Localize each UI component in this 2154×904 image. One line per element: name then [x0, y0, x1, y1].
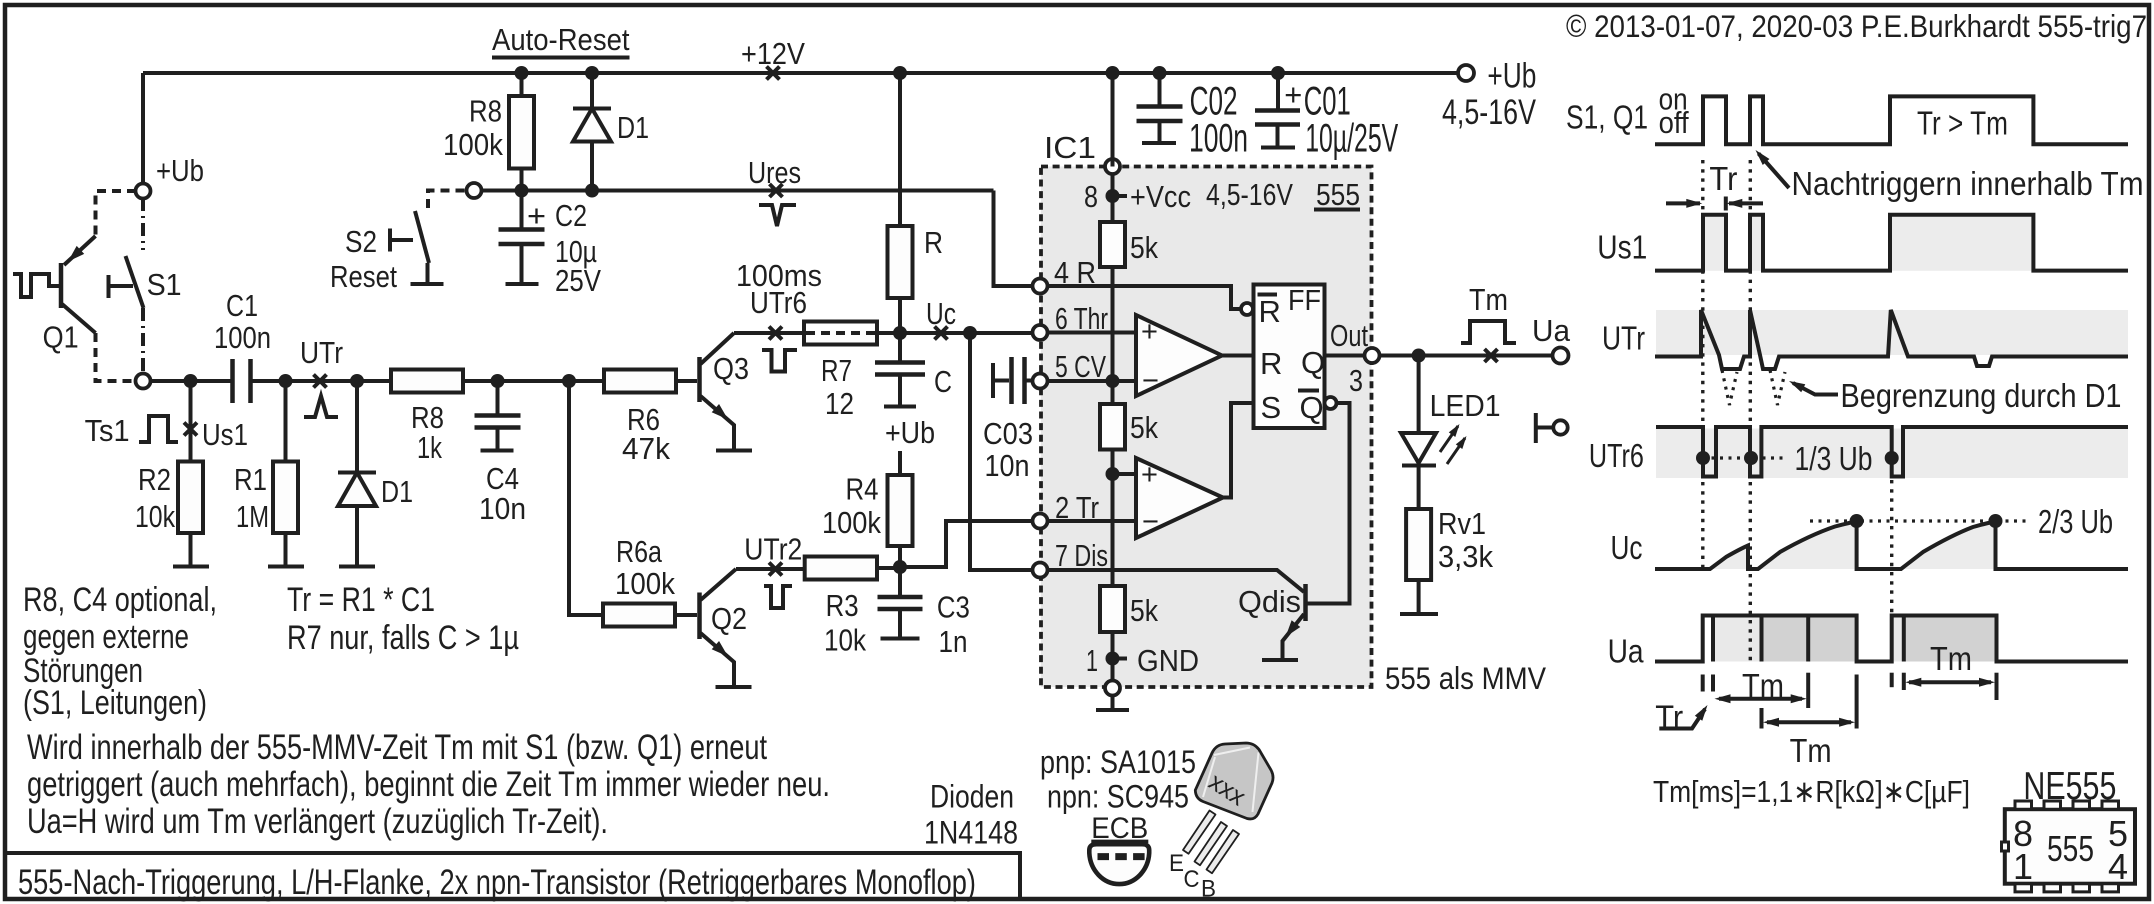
svg-text:10µ/25V: 10µ/25V: [1305, 117, 1398, 161]
svg-text:100k: 100k: [822, 505, 881, 540]
svg-text:IC1: IC1: [1044, 130, 1096, 165]
tick Tm C left b: [1902, 673, 1906, 690]
dot 2/3 level b: [1989, 514, 2003, 528]
svg-text:Tr = R1 * C1: Tr = R1 * C1: [287, 581, 435, 619]
wire pin1 to ground: [1111, 695, 1115, 709]
transistor Qdis base bar: [1303, 584, 1308, 621]
arrowhead Tm B left: [1763, 718, 1779, 727]
wire R1 to ground: [284, 533, 288, 565]
svg-text:S: S: [1261, 390, 1282, 425]
svg-text:C1: C1: [226, 288, 258, 323]
svg-text:4: 4: [2108, 846, 2128, 887]
svg-text:UTr6: UTr6: [750, 285, 807, 320]
wire C4 to bar: [496, 428, 500, 450]
svg-text:1M: 1M: [236, 499, 269, 534]
svg-text:D1: D1: [381, 474, 413, 509]
dot 1/3 level a: [1696, 451, 1710, 465]
ground bar pin1: [1096, 708, 1129, 712]
tick gnd label: [1119, 657, 1127, 661]
svg-text:Tr: Tr: [1709, 160, 1737, 197]
junction rail C02: [1153, 66, 1167, 80]
wire divider lower: [1111, 450, 1115, 587]
arrowhead Tr left: [1686, 199, 1702, 208]
ground bar Qdis: [1262, 658, 1298, 662]
wire R to node: [898, 298, 902, 333]
arrowhead Qdis emitter: [1281, 620, 1300, 640]
wire out net: [1379, 354, 1553, 358]
svg-text:100k: 100k: [615, 566, 675, 601]
svg-text:Tm[ms]=1,1∗R[kΩ]∗C[µF]: Tm[ms]=1,1∗R[kΩ]∗C[µF]: [1653, 774, 1970, 809]
svg-text:C2: C2: [555, 198, 587, 233]
pin 4 R circle: [1033, 279, 1048, 294]
wire left drop from rail to +Ub connector: [141, 73, 145, 184]
svg-text:1: 1: [2013, 846, 2033, 887]
wire Ures net: [481, 189, 994, 193]
svg-text:8: 8: [1084, 179, 1098, 214]
svg-text:Auto-Reset: Auto-Reset: [492, 22, 630, 57]
wire R4 to node: [898, 546, 902, 567]
ground bar R2: [173, 565, 209, 569]
resistor R6a 100k: [603, 604, 675, 627]
ground bar C: [884, 405, 916, 409]
NE555 bottom pins: [2015, 884, 2119, 892]
arrowhead Begrenzung: [1787, 377, 1805, 392]
waveform UTr6 gray band: [1656, 429, 2128, 479]
svg-text:Ures: Ures: [748, 155, 801, 190]
NE555 top pins: [2015, 801, 2119, 809]
wire D1 to ground: [355, 506, 359, 565]
svg-text:3: 3: [1349, 363, 1363, 398]
wire C03 to pin5: [1025, 379, 1034, 383]
dimension Tm C line: [1909, 680, 1991, 684]
svg-text:1: 1: [1086, 643, 1098, 678]
glyph UTr2 down pulse: [764, 586, 792, 608]
dotted guide line B: [1749, 160, 1752, 662]
svg-text:R8, C4 optional,: R8, C4 optional,: [23, 581, 217, 619]
svg-text:Tm: Tm: [1742, 667, 1784, 704]
waveform UTr gray band: [1656, 310, 2128, 355]
annotation Tr arrow bottom: [1659, 709, 1705, 729]
dotted level 2/3 Ub: [1810, 519, 2030, 522]
svg-text:+: +: [1141, 316, 1158, 348]
TO-92 front view flat dashes: [1098, 853, 1146, 860]
svg-text:Ua=H wird um Tm verlängert (zu: Ua=H wird um Tm verlängert (zuzüglich Tr…: [27, 802, 608, 841]
IC1 555 dashed border: [1041, 167, 1372, 688]
transistor Q2 base bar: [697, 593, 702, 640]
underline ECB: [1091, 840, 1148, 843]
ground bar Q3 emitter: [716, 449, 752, 453]
glyph Q1 input pulse: [13, 274, 59, 297]
arrowhead Tm C right: [1979, 678, 1995, 687]
svg-text:Out: Out: [1330, 318, 1368, 353]
switch S1 contact bar: [109, 275, 134, 298]
transistor Q2 collector: [701, 569, 737, 600]
wire pin4 to FF Rbar: [1047, 286, 1241, 309]
svg-text:Tr > Tm: Tr > Tm: [1917, 105, 2008, 142]
svg-text:1/3 Ub: 1/3 Ub: [1795, 440, 1873, 477]
svg-text:1N4148: 1N4148: [924, 815, 1018, 851]
tick Tm B right: [1855, 675, 1859, 729]
wire comp1 out: [1222, 354, 1254, 358]
junction R1 node: [279, 374, 293, 388]
waveform UTr6 trace: [1656, 427, 2128, 477]
svg-text:5k: 5k: [1130, 410, 1158, 445]
svg-text:2/3 Ub: 2/3 Ub: [2038, 503, 2113, 540]
capacitor C3 plates: [878, 597, 923, 609]
tick Tm B left: [1760, 708, 1764, 729]
arrowhead Tm B right: [1839, 718, 1855, 727]
svg-text:(S1, Leitungen): (S1, Leitungen): [23, 684, 207, 722]
ground bar C4: [481, 449, 514, 453]
measure point X UTr2: [769, 563, 782, 576]
svg-text:LED1: LED1: [1430, 388, 1501, 423]
junction Ures R8: [515, 184, 529, 198]
wire Ures to C2: [520, 191, 524, 230]
svg-text:555 als MMV: 555 als MMV: [1385, 660, 1546, 696]
wire node to C3: [898, 568, 902, 597]
transistor Q1 base bar: [59, 263, 64, 308]
svg-text:UTr2: UTr2: [744, 532, 802, 567]
glyph UTr6 down pulse: [762, 350, 797, 372]
svg-text:Ts1: Ts1: [85, 413, 130, 448]
svg-text:Us1: Us1: [202, 417, 248, 452]
measure point X Ua: [1485, 349, 1498, 362]
tick pin8 to Vcc label: [1119, 194, 1127, 198]
svg-text:Begrenzung durch D1: Begrenzung durch D1: [1841, 377, 2122, 414]
wire Uc net: [734, 331, 804, 335]
junction rail R timing: [893, 66, 907, 80]
svg-text:47k: 47k: [622, 431, 670, 466]
underline 555: [1314, 208, 1360, 212]
junction rail D1: [585, 66, 599, 80]
dot 1/3 level c: [1885, 451, 1899, 465]
IC1 555 block shaded area: [1041, 167, 1372, 688]
svg-text:C: C: [1184, 866, 1200, 893]
svg-text:R7: R7: [821, 353, 852, 388]
connector open stub: [1536, 413, 1553, 443]
svg-text:Us1: Us1: [1597, 229, 1647, 266]
diode D1 input clamp: [338, 471, 376, 475]
svg-text:5k: 5k: [1130, 230, 1158, 265]
junction GND node: [1106, 652, 1120, 666]
capacitor C02 plates: [1137, 107, 1183, 122]
wire R8 to C4 node: [463, 379, 604, 383]
junction R3 R4 C3 node: [893, 560, 907, 574]
svg-text:10k: 10k: [135, 499, 175, 534]
wire rail to R8: [520, 73, 524, 96]
svg-text:5 CV: 5 CV: [1055, 349, 1106, 384]
title box: [5, 853, 1020, 899]
capacitor C4 plates: [475, 416, 521, 428]
resistor R8 100k: [509, 96, 534, 169]
tick Tm C left a: [1890, 673, 1894, 688]
wire D1 to Ures node: [590, 142, 594, 191]
junction rail C01: [1271, 66, 1285, 80]
svg-text:10n: 10n: [985, 448, 1030, 483]
transistor Q1 collector: [62, 304, 96, 333]
svg-text:gegen externe: gegen externe: [23, 618, 189, 656]
capacitor C2 plates: [499, 230, 545, 245]
svg-text:Q1: Q1: [43, 320, 79, 355]
wire out to LED: [1417, 356, 1421, 434]
svg-text:R3: R3: [826, 588, 859, 623]
svg-text:Q: Q: [1301, 345, 1325, 380]
svg-text:B: B: [1201, 876, 1216, 903]
svg-text:Q: Q: [1300, 390, 1324, 425]
op-amp comparator lower: [1136, 458, 1223, 538]
svg-text:4,5-16V: 4,5-16V: [1206, 177, 1293, 212]
resistor R2 10k: [178, 462, 203, 534]
wire pin8 into chip: [1111, 174, 1115, 223]
svg-text:R6a: R6a: [616, 534, 663, 569]
dimension Tm A line: [1719, 697, 1802, 701]
dash-dot wire +Ub to S1: [141, 198, 145, 250]
svg-text:S1: S1: [147, 267, 182, 302]
wire Qbar to Qdis base: [1307, 403, 1350, 604]
wire rail to D1: [590, 73, 594, 109]
svg-text:+Vcc: +Vcc: [1130, 179, 1191, 214]
waveform Uc trace: [1655, 522, 2128, 570]
wire C01 to bar: [1276, 125, 1280, 147]
svg-text:+: +: [1141, 459, 1158, 491]
arrowhead Tr right: [1726, 199, 1742, 208]
arrowhead Q3 emitter: [712, 404, 732, 424]
dotted guide line C: [1890, 434, 1893, 662]
waveform Ua pulse2 light fill: [1892, 616, 1904, 662]
measure point X Ures: [770, 184, 783, 197]
junction D1 node: [350, 374, 364, 388]
op-amp comparator upper: [1136, 315, 1222, 396]
dashed bridge through R7: [806, 331, 875, 335]
wire R6a to Q2 base: [675, 613, 697, 617]
wire pin5 to comp1 minus: [1047, 379, 1136, 383]
junction R C node: [893, 326, 907, 340]
pin 6 Thr circle: [1033, 325, 1048, 340]
annotation Begrenzung arrow: [1793, 383, 1838, 395]
svg-text:S1, Q1: S1, Q1: [1566, 99, 1648, 136]
terminal +Ub top right: [1458, 65, 1474, 81]
resistor Rv1 3k3: [1406, 509, 1431, 580]
glyph Ts1 pulse: [139, 416, 178, 442]
connector +Ub left: [136, 184, 151, 199]
svg-text:UTr6: UTr6: [1589, 437, 1644, 474]
wire +Ub stub to R4: [898, 451, 902, 475]
svg-text:−: −: [1142, 506, 1159, 538]
svg-text:E: E: [1169, 850, 1184, 877]
wire R6a branch: [569, 381, 603, 615]
wire R6 to Q3 base: [676, 379, 697, 383]
ground bar Rv1: [1400, 612, 1438, 616]
junction divider CV: [1106, 374, 1120, 388]
resistor R timing: [888, 226, 913, 298]
wire Rv1 to ground: [1417, 580, 1421, 613]
svg-text:off: off: [1659, 105, 1689, 140]
terminal Ua circle: [1553, 348, 1569, 364]
junction pin8 inner: [1106, 189, 1120, 203]
tick Tr edge 1: [1701, 675, 1705, 692]
ground bar Q2 emitter: [716, 685, 752, 689]
svg-text:+Ub: +Ub: [1487, 57, 1536, 96]
terminal bar C01: [1261, 146, 1295, 150]
svg-text:Qdis: Qdis: [1238, 584, 1301, 619]
capacitor C03 plates: [1012, 357, 1025, 404]
pin 7 Dis circle: [1033, 563, 1048, 578]
wire input node to C1: [150, 379, 233, 383]
glyph Tm pulse: [1461, 321, 1516, 343]
resistor divider 5k mid: [1100, 404, 1125, 450]
glyph Ures negative spike: [759, 205, 796, 226]
svg-text:R: R: [924, 225, 943, 260]
wire FF Q to out pin: [1325, 354, 1366, 358]
wire C3 to bar: [898, 609, 902, 637]
waveform Us1 pulse fills: [1703, 215, 2033, 271]
switch S2 contact bar: [390, 229, 413, 252]
capacitor C03 terminal bar: [993, 363, 1009, 398]
dash-dot wire S1 to input circle: [141, 308, 145, 373]
capacitor C1 plates: [233, 359, 251, 403]
resistor R4 100k: [888, 475, 913, 546]
wire divider upper: [1111, 267, 1115, 404]
svg-text:FF: FF: [1288, 285, 1321, 317]
svg-text:555: 555: [1316, 177, 1360, 212]
glyph UTr spike: [304, 396, 338, 417]
waveform Ua pulse1 light fill: [1713, 616, 1762, 662]
svg-text:R8: R8: [469, 94, 502, 129]
junction LED branch: [1412, 349, 1426, 363]
arrowhead Q1 emitter: [64, 246, 84, 266]
underline Auto-Reset: [492, 56, 630, 60]
LED LED1 arrows: [1440, 426, 1465, 464]
FF inverting bubble Qbar: [1325, 397, 1337, 409]
svg-text:R7 nur, falls C > 1µ: R7 nur, falls C > 1µ: [287, 619, 519, 657]
svg-text:555-Nach-Triggerung, L/H-Flank: 555-Nach-Triggerung, L/H-Flanke, 2x npn-…: [18, 863, 976, 902]
pin 1 GND circle: [1105, 681, 1120, 696]
ground bar C3: [881, 637, 920, 641]
svg-text:Ua: Ua: [1608, 632, 1645, 669]
resistor R1 1M: [273, 462, 298, 534]
dashed wire Q1 collector to input node: [96, 333, 137, 381]
arrowhead LED ray 1: [1449, 422, 1463, 437]
pin 5 CV circle: [1033, 374, 1048, 389]
svg-text:Tm: Tm: [1930, 640, 1972, 677]
svg-text:C03: C03: [983, 416, 1033, 451]
flip-flop FF box: [1254, 285, 1325, 429]
svg-text:Tm: Tm: [1469, 282, 1508, 317]
waveform Ua divider 4: [1902, 616, 1906, 662]
ground bar R1: [268, 565, 304, 569]
wire R8 to Ures node: [520, 169, 524, 191]
svg-text:100n: 100n: [1189, 117, 1248, 161]
svg-text:1k: 1k: [417, 430, 442, 465]
svg-text:Tm: Tm: [1790, 732, 1832, 769]
waveform Ua pulse2 dark fill: [1904, 616, 1997, 662]
TO-92 front view outline: [1089, 844, 1149, 884]
tick Tm C right: [1995, 673, 1999, 700]
resistor divider 5k top: [1100, 222, 1125, 267]
wire D1 branch: [355, 381, 359, 473]
svg-text:+Ub: +Ub: [156, 153, 204, 188]
pin 2 Tr circle: [1033, 514, 1048, 529]
wire C4 branch: [496, 381, 500, 416]
waveform UTr dotted V2: [1770, 370, 1785, 405]
annotation Nachtriggern arrow: [1759, 154, 1790, 189]
svg-text:5k: 5k: [1130, 593, 1158, 628]
wire Uc node to pin7 Dis: [970, 333, 1033, 570]
svg-text:Ua: Ua: [1532, 313, 1571, 348]
NE555 pin1 notch: [2002, 842, 2009, 851]
dashed wire +Ub to Q1 emitter: [96, 191, 137, 236]
svg-text:+: +: [1284, 77, 1302, 112]
measure point X UTr6: [769, 327, 782, 340]
junction rail R8: [515, 66, 529, 80]
svg-text:10k: 10k: [824, 623, 866, 658]
svg-text:npn: SC945: npn: SC945: [1047, 779, 1189, 815]
svg-text:R: R: [1260, 346, 1282, 381]
dashed wire S2 to Ures connector: [428, 191, 467, 209]
dimension Tm B line: [1767, 720, 1851, 724]
transistor Qdis emitter: [1283, 614, 1305, 659]
resistor divider 5k bottom: [1100, 586, 1125, 632]
svg-text:C3: C3: [937, 590, 970, 625]
transistor Q3 emitter: [701, 396, 735, 449]
capacitor C plates: [875, 363, 925, 375]
arrowhead Tm A right: [1791, 694, 1807, 703]
svg-text:+Ub: +Ub: [885, 415, 935, 450]
terminal bar C02: [1142, 141, 1176, 145]
svg-text:pnp: SA1015: pnp: SA1015: [1040, 744, 1196, 780]
svg-text:4,5-16V: 4,5-16V: [1442, 93, 1536, 132]
LED LED1 triangle: [1401, 433, 1436, 463]
wire rail to R: [898, 73, 902, 226]
svg-text:Reset: Reset: [330, 259, 397, 294]
wire Ures corner down to pin4: [994, 191, 1034, 287]
pin 3 Out circle: [1365, 348, 1380, 363]
tick Tm A right: [1806, 673, 1810, 708]
svg-text:UTr: UTr: [1602, 320, 1645, 357]
waveform Us1 trace: [1655, 215, 2128, 271]
svg-text:Rv1: Rv1: [1438, 506, 1486, 541]
svg-text:555: 555: [2047, 828, 2094, 869]
waveform Ua divider 2: [1760, 616, 1764, 662]
wire divider to gnd pin: [1111, 632, 1115, 681]
measure point X Us1: [184, 423, 197, 436]
waveform Ua divider 1: [1711, 616, 1715, 662]
dimension Tr arrows: [1666, 197, 1763, 211]
tick Tr edge 2: [1711, 675, 1715, 692]
waveform UTr trace: [1655, 310, 2128, 369]
svg-text:GND: GND: [1137, 643, 1199, 678]
resistor R3 10k: [805, 557, 877, 580]
wire R7 to R node: [877, 331, 1033, 335]
waveform Ua trace: [1655, 616, 2128, 662]
svg-text:1n: 1n: [939, 624, 968, 659]
wire C02 to bar: [1158, 121, 1162, 142]
wire comp2 plus link: [1113, 472, 1137, 476]
junction divider comp2: [1106, 467, 1120, 481]
waveform UTr dotted V1: [1722, 370, 1737, 405]
svg-text:+: +: [527, 198, 546, 233]
junction R6a node: [562, 374, 576, 388]
wire S2 bottom stub: [426, 263, 430, 283]
wire C2 to bar: [520, 244, 524, 283]
wire rail to C02: [1158, 73, 1162, 106]
arrowhead LED ray 2: [1456, 434, 1470, 449]
arrowhead Tr bottom: [1695, 702, 1711, 720]
wire C1 to UTr node: [251, 379, 392, 383]
wire LED to Rv1: [1417, 466, 1421, 510]
svg-text:R4: R4: [846, 472, 879, 507]
terminal bar under C2: [506, 282, 539, 286]
